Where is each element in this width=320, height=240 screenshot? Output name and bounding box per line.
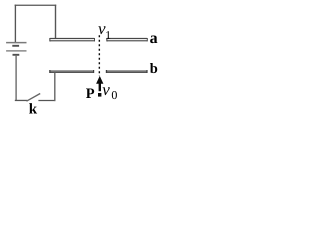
capacitor plate top-right a <box>106 38 148 41</box>
svg-text:0: 0 <box>111 88 117 102</box>
wire right vertical upper <box>55 5 57 39</box>
svg-text:b: b <box>150 61 158 77</box>
wire left vertical lower <box>15 55 17 101</box>
svg-text:a: a <box>150 30 158 47</box>
wire top horizontal <box>15 4 57 6</box>
dotted trajectory line <box>98 35 100 76</box>
wire right vertical lower <box>54 73 56 102</box>
svg-text:k: k <box>29 102 38 116</box>
svg-text:v: v <box>102 80 110 99</box>
wire left vertical upper <box>14 5 16 43</box>
wire switch left segment <box>15 99 28 101</box>
capacitor plate top-left <box>49 38 95 41</box>
capacitor plate bottom-right b <box>106 70 148 73</box>
svg-text:1: 1 <box>105 28 111 42</box>
capacitor plate bottom-left <box>49 70 94 73</box>
wire switch right segment <box>38 100 55 102</box>
point P marker <box>98 93 101 97</box>
velocity arrow v0 <box>96 76 103 91</box>
battery <box>6 43 26 55</box>
svg-text:P: P <box>86 86 95 102</box>
switch k blade <box>27 94 41 102</box>
